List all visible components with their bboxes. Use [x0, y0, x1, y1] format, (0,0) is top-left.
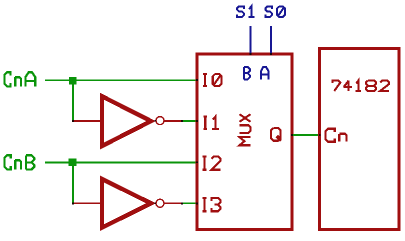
- part name MUX (rotated): [240, 114, 251, 145]
- net label S1: [237, 6, 254, 17]
- wire inverter U3 to I3: [182, 202, 198, 204]
- pin label A: [261, 67, 268, 80]
- junction on CnA net: [69, 77, 77, 85]
- wire junction down to inverter U3 input: [72, 162, 74, 203]
- part name 74182: [333, 81, 390, 91]
- wire inverter U2 to I1: [182, 120, 198, 122]
- inverter U3 output bubble: [156, 199, 164, 207]
- inverter U2 output bubble: [156, 117, 164, 125]
- wire Q to Cn: [292, 134, 320, 136]
- pin label I1: [203, 116, 219, 128]
- carry lookahead U4 body: [320, 49, 399, 230]
- inverter U2 output pin: [165, 120, 183, 122]
- wire junction dots: [72, 53, 320, 204]
- pin label Cn: [326, 129, 347, 142]
- pin label B: [244, 67, 250, 80]
- net label S0: [265, 6, 285, 17]
- inverter U3 triangle: [102, 179, 151, 228]
- multiplexer U1 body: [197, 54, 292, 230]
- pin label I3: [202, 198, 220, 211]
- inverter U3 input pin: [73, 202, 101, 204]
- wire junction down to inverter U2 input: [72, 80, 74, 121]
- wire CnB to I2: [45, 162, 197, 164]
- wire CnA to I0: [45, 79, 197, 81]
- pin label Q: [271, 128, 281, 141]
- pin B select line: [250, 26, 252, 55]
- net label CnB: [4, 155, 34, 169]
- pin label I0: [203, 74, 222, 86]
- inverter U2 triangle: [102, 96, 151, 146]
- inverter U2 input pin: [73, 120, 101, 122]
- pin label I2: [202, 156, 220, 169]
- pin A select line: [270, 26, 272, 55]
- net label CnA: [4, 72, 35, 86]
- inverter U3 output pin: [165, 203, 183, 205]
- junction on CnB net: [69, 159, 77, 167]
